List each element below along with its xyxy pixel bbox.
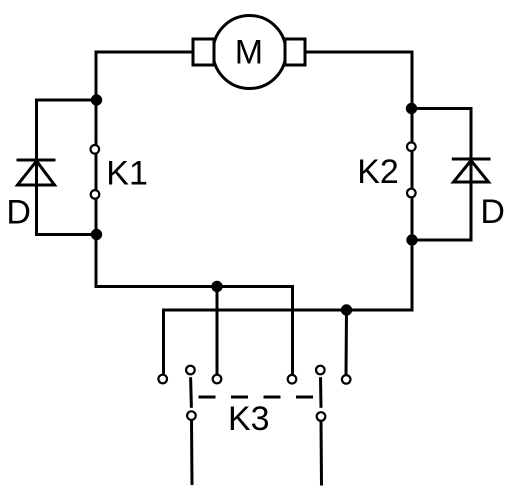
svg-text:M: M (235, 34, 263, 72)
relay K3 left pole armature wire (189, 377, 193, 408)
junction node F (bus2) (341, 304, 352, 315)
relay K3 mechanical link (dashed) (199, 396, 317, 399)
wire diode-D1 branch loop (37, 100, 97, 235)
svg-text:K2: K2 (357, 153, 399, 191)
relay K3 right pole armature wire (319, 377, 323, 408)
relay K3 left pole contacts (158, 366, 221, 420)
wire diode-D2 branch loop (412, 109, 471, 241)
relay K3 right pole bottom wire (320, 421, 324, 486)
junction node A (left top) (91, 94, 102, 105)
junction node E (bus1) (211, 281, 222, 292)
relay K3 right pole contacts (288, 366, 351, 421)
motor M (193, 16, 305, 89)
junction node C (right top) (406, 103, 417, 114)
diode D1 (left) (17, 160, 56, 185)
svg-text:K1: K1 (106, 154, 148, 192)
wire right top: motor to right branch and down to bus2, across, down to K3 contact (164, 52, 413, 374)
relay K3 left pole bottom wire (190, 420, 194, 485)
junction node D (right bottom) (406, 234, 417, 245)
relay contact K1 (91, 145, 100, 199)
diode D2 (right) (452, 159, 491, 182)
svg-text:D: D (6, 194, 31, 232)
wire drop bus2 to K3 right pole right contact (345, 310, 349, 376)
svg-text:D: D (480, 193, 505, 231)
relay contact K2 (407, 142, 416, 197)
wire drop bus1 to K3 left pole right contact (216, 287, 219, 375)
svg-text:K3: K3 (228, 400, 270, 438)
wire left top: motor to left branch and down to bus1, across, down to K3 contact (96, 52, 293, 375)
junction node B (left bottom) (91, 229, 102, 240)
